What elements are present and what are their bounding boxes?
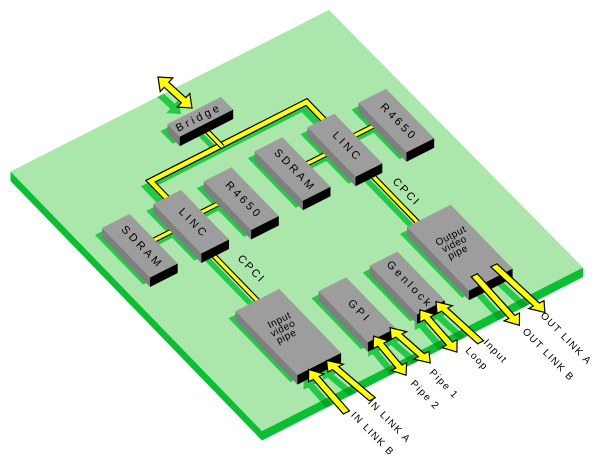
shadow of bridge arrow [147, 83, 181, 114]
chip linc2 [153, 190, 229, 263]
shadow of arrow input [431, 310, 479, 352]
shadow of trace cpci2 [360, 173, 419, 233]
arrow in link a [327, 360, 376, 400]
shadow of chip linc2 [146, 197, 222, 261]
trace sdram2-linc2 [152, 227, 180, 241]
trace cpci2 [364, 167, 423, 227]
arrow pipe 1 [390, 328, 430, 363]
shadow of chip in_pipe [229, 296, 335, 382]
shadow of trace linc1-r4650 [349, 128, 378, 143]
trace bus [151, 102, 329, 203]
shadow of chip sdram2 [95, 221, 171, 285]
trace sdram1-linc1 [305, 150, 334, 164]
edge shadow of arrow out link b [466, 282, 514, 334]
chip in_pipe [236, 289, 342, 385]
edge shadow of arrow pipe 1 [385, 336, 425, 371]
arrow in link b [309, 369, 350, 414]
shadow of arrow loop [415, 318, 452, 360]
shadow of arrow out link a [486, 272, 540, 321]
shadows cast on board top [95, 83, 540, 422]
chip sdram1 [255, 137, 331, 210]
chip out_pipe [407, 205, 513, 301]
chip gpi [319, 277, 396, 352]
shadow of trace cpci1 [201, 252, 259, 312]
board bottom-left edge face [11, 172, 263, 441]
chip genlock [370, 252, 445, 324]
shadow of arrow pipe 2 [368, 344, 402, 383]
chip r4650_1 [359, 89, 435, 162]
shadow of arrow in link a [322, 368, 371, 408]
shadow of trace bridge stub [192, 126, 218, 153]
shadow of trace sdram1-linc1 [301, 156, 330, 170]
shadow of chip r4650_1 [352, 96, 428, 160]
shadow of chip bridge [161, 104, 227, 144]
edge shadow of arrow input [431, 310, 479, 352]
shadow of arrow in link b [304, 377, 345, 422]
trace linc2-r4650 [200, 200, 226, 213]
shadow of trace sdram2-linc2 [148, 233, 176, 247]
arrow out link a [491, 264, 545, 313]
arrow loop [420, 310, 457, 352]
trace cpci1 [205, 246, 263, 306]
edge shadow of arrow loop [415, 318, 452, 360]
shadow of chip r4650_2 [197, 174, 272, 237]
shadow of chip sdram1 [248, 144, 324, 208]
board bottom-right edge face [262, 268, 583, 441]
chip bridge [168, 97, 234, 146]
chip r4650_2 [204, 167, 279, 239]
trace linc1-r4650 [353, 122, 382, 137]
chip linc1 [308, 114, 383, 187]
shadow of arrow pipe 1 [385, 336, 425, 371]
shadows cast on board edge [304, 272, 540, 422]
edge shadow of arrow pipe 2 [368, 344, 402, 383]
shadow of chip linc1 [301, 121, 376, 184]
shadow of trace bus [147, 108, 325, 209]
arrow input [436, 302, 484, 344]
arrow pipe 2 [373, 336, 407, 375]
shadow of trace linc2-r4650 [196, 206, 222, 219]
shadow of chip genlock [363, 259, 438, 322]
edge shadow of arrow in link a [322, 368, 371, 408]
bridge external link arrow [158, 77, 192, 108]
chip sdram2 [102, 214, 178, 287]
edge shadow of arrow out link a [486, 272, 540, 321]
trace bridge stub [196, 120, 222, 147]
arrow out link b [471, 274, 519, 326]
shadow of chip out_pipe [400, 212, 506, 298]
edge shadow of arrow in link b [304, 377, 345, 422]
shadow of chip gpi [312, 284, 389, 349]
shadow of arrow out link b [466, 282, 514, 334]
